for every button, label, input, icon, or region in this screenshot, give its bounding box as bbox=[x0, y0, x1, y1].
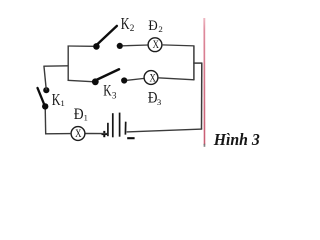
svg-text:3: 3 bbox=[157, 97, 162, 107]
wire: top branch right segment bbox=[162, 45, 195, 46]
wire: jog from node B to right rail bbox=[193, 62, 202, 64]
wire: bottom branch left segment bbox=[68, 80, 93, 81]
svg-text:X: X bbox=[150, 73, 157, 85]
wire: bottom branch middle segment bbox=[127, 78, 144, 80]
svg-text:X: X bbox=[153, 39, 160, 51]
node B: right junction vertical of parallel branches bbox=[193, 46, 195, 81]
wire: right rail bbox=[201, 63, 203, 130]
wire: left rail upper segment bbox=[44, 66, 46, 91]
svg-text:K: K bbox=[103, 83, 111, 100]
svg-text:X: X bbox=[75, 128, 82, 140]
label minus bbox=[127, 137, 134, 139]
switch K2 bbox=[93, 26, 123, 50]
lamp D1 bbox=[71, 127, 85, 141]
svg-text:Đ: Đ bbox=[74, 106, 84, 123]
switch K3 bbox=[92, 69, 127, 85]
wire: left rail lower segment bbox=[44, 107, 47, 135]
wire: top branch middle segment bbox=[123, 44, 149, 47]
wire: stub from left rail to parallel junction bbox=[44, 65, 68, 67]
lamp D2 bbox=[148, 38, 162, 52]
node A: left junction vertical of parallel branches bbox=[67, 46, 69, 81]
svg-text:1: 1 bbox=[84, 113, 88, 123]
red margin line bbox=[203, 18, 206, 147]
battery bbox=[108, 113, 126, 138]
lamp D3 bbox=[144, 71, 158, 85]
wire: bottom wire from right rail to battery bbox=[127, 129, 203, 132]
svg-text:K: K bbox=[121, 15, 130, 33]
svg-text:Đ: Đ bbox=[148, 17, 157, 34]
svg-text:2: 2 bbox=[130, 23, 135, 33]
svg-text:Hình 3: Hình 3 bbox=[213, 129, 260, 149]
wire: bottom branch right segment bbox=[158, 78, 195, 80]
svg-text:2: 2 bbox=[158, 24, 162, 34]
switch K1 bbox=[38, 87, 50, 110]
label plus bbox=[102, 131, 108, 137]
svg-text:3: 3 bbox=[112, 91, 117, 101]
wire: top branch left segment bbox=[68, 45, 94, 47]
wire: bottom-left wire bbox=[45, 133, 71, 135]
wire: battery to lamp D1 bbox=[85, 133, 107, 135]
svg-text:1: 1 bbox=[60, 98, 64, 108]
